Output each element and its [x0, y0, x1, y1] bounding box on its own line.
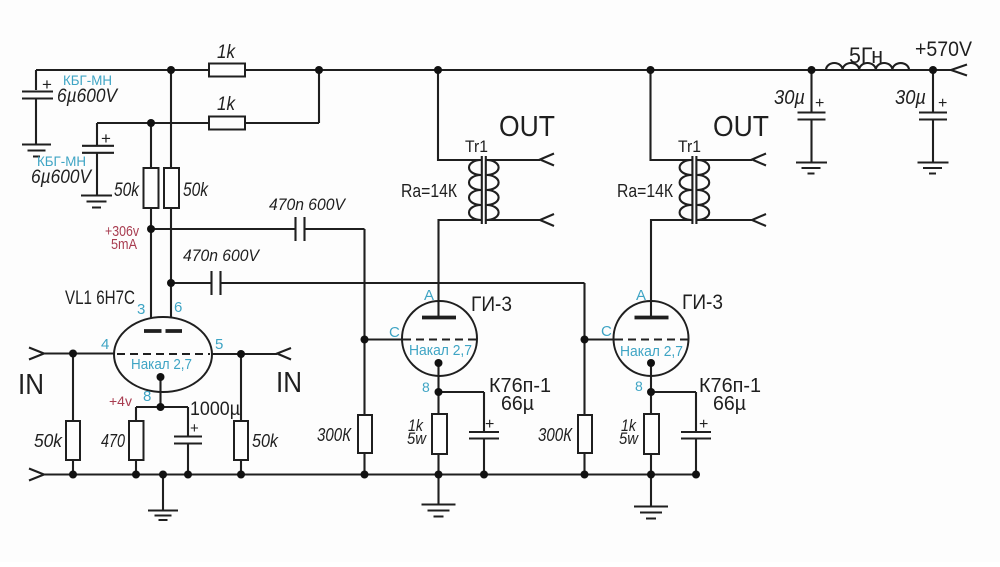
svg-text:A: A	[636, 287, 646, 304]
svg-text:IN: IN	[18, 369, 44, 401]
svg-text:1000µ: 1000µ	[190, 399, 240, 420]
svg-text:+: +	[938, 95, 947, 112]
svg-text:Tr1: Tr1	[465, 137, 488, 156]
svg-text:+: +	[101, 129, 111, 148]
svg-text:Накал 2,7: Накал 2,7	[131, 356, 192, 373]
svg-text:5Гн: 5Гн	[849, 43, 883, 68]
svg-text:Накал 2,7: Накал 2,7	[620, 343, 683, 360]
svg-text:8: 8	[635, 378, 643, 394]
svg-text:50k: 50k	[252, 431, 279, 451]
svg-text:+570V: +570V	[915, 38, 972, 61]
svg-text:OUT: OUT	[499, 111, 555, 143]
svg-text:6: 6	[174, 299, 182, 316]
svg-text:50k: 50k	[114, 180, 140, 201]
svg-text:ГИ-3: ГИ-3	[682, 291, 723, 314]
svg-text:OUT: OUT	[713, 111, 769, 143]
svg-text:1k: 1k	[217, 94, 236, 115]
svg-text:VL1 6Н7С: VL1 6Н7С	[65, 288, 135, 309]
svg-text:6µ600V: 6µ600V	[57, 86, 119, 107]
svg-text:Ra=14К: Ra=14К	[617, 181, 673, 201]
svg-text:50k: 50k	[183, 180, 209, 201]
svg-text:+: +	[815, 95, 824, 112]
svg-text:8: 8	[422, 379, 430, 395]
svg-text:300К: 300К	[538, 425, 573, 445]
svg-text:66µ: 66µ	[713, 393, 746, 415]
svg-text:470n 600V: 470n 600V	[183, 246, 261, 265]
svg-text:66µ: 66µ	[501, 393, 534, 415]
svg-text:4: 4	[101, 336, 109, 353]
svg-text:Tr1: Tr1	[678, 137, 701, 156]
svg-text:Ra=14К: Ra=14К	[401, 181, 457, 201]
svg-text:8: 8	[143, 388, 151, 405]
svg-text:5w: 5w	[619, 429, 640, 448]
svg-text:+4v: +4v	[109, 393, 132, 409]
svg-text:A: A	[424, 287, 434, 304]
svg-text:1k: 1k	[217, 42, 236, 63]
svg-text:5w: 5w	[407, 429, 428, 448]
svg-text:470: 470	[101, 431, 125, 451]
svg-text:+: +	[699, 416, 708, 433]
svg-text:5: 5	[215, 336, 223, 353]
svg-text:C: C	[601, 323, 612, 340]
svg-text:30µ: 30µ	[774, 87, 805, 109]
svg-text:C: C	[389, 324, 400, 341]
svg-text:ГИ-3: ГИ-3	[471, 293, 512, 316]
svg-text:+: +	[190, 420, 199, 437]
svg-text:6µ600V: 6µ600V	[31, 167, 93, 188]
svg-text:30µ: 30µ	[895, 87, 926, 109]
svg-text:5mA: 5mA	[111, 236, 137, 253]
svg-text:50k: 50k	[34, 431, 63, 451]
svg-text:Накал 2,7: Накал 2,7	[409, 342, 472, 359]
svg-text:470n 600V: 470n 600V	[269, 195, 347, 214]
svg-text:3: 3	[137, 301, 145, 318]
svg-text:IN: IN	[276, 367, 302, 399]
svg-text:+: +	[485, 416, 494, 433]
svg-text:+: +	[42, 75, 52, 94]
svg-text:300К: 300К	[317, 425, 352, 445]
